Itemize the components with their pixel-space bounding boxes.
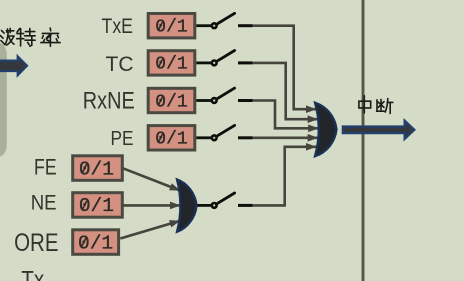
flag box TC (148, 51, 195, 75)
flag box RxNE (148, 88, 195, 112)
block right-edge border (rounded corner of left block) (0, 45, 3, 155)
flag box FE (73, 156, 123, 181)
svg-text:TC: TC (106, 53, 134, 76)
label TxE (102, 15, 133, 39)
interrupt output arrow (343, 121, 415, 139)
switch RxNE (196, 88, 252, 103)
wire FE to OR gate U2 (123, 168, 180, 190)
svg-text:TxE: TxE (102, 15, 133, 39)
flag box PE (148, 126, 195, 150)
switch U2 output (198, 193, 253, 208)
svg-text:RxNE: RxNE (83, 87, 135, 114)
wire NE to OR gate U2 (123, 204, 180, 207)
svg-text:NE: NE (31, 191, 57, 214)
label FE (34, 156, 57, 180)
baud rate input arrow (0, 56, 27, 75)
label ORE (14, 228, 58, 256)
label PE (111, 128, 134, 151)
wire RxNE to OR gate U1 (252, 101, 318, 129)
svg-text:PE: PE (111, 128, 134, 151)
label RxNE (83, 87, 135, 114)
label 波特率 (baud rate) (0, 28, 60, 46)
svg-text:ORE: ORE (14, 228, 58, 256)
label TC (106, 53, 134, 76)
wire ORE to OR gate U2 (120, 221, 180, 239)
wire TC to OR gate U1 (252, 63, 318, 119)
switch PE (196, 125, 252, 140)
flag box NE (73, 193, 123, 218)
flag box ORE (73, 230, 119, 255)
wire TxE to OR gate U1 (252, 26, 316, 110)
OR gate U2 (error flags) (177, 179, 197, 231)
label Tx (partially cut) (21, 266, 44, 281)
vertical boundary line (362, 0, 365, 281)
switch TxE (196, 13, 252, 28)
svg-text:FE: FE (34, 156, 57, 180)
label NE (31, 191, 57, 214)
flag box TxE (148, 14, 195, 38)
wire PE to OR gate U1 (252, 137, 318, 140)
label 中断 (interrupt) (359, 96, 393, 114)
wire U2 to OR gate U1 (252, 147, 316, 206)
svg-text:Tx: Tx (21, 266, 44, 281)
switch TC (196, 51, 252, 66)
OR gate U1 (interrupt combine) (315, 103, 337, 157)
